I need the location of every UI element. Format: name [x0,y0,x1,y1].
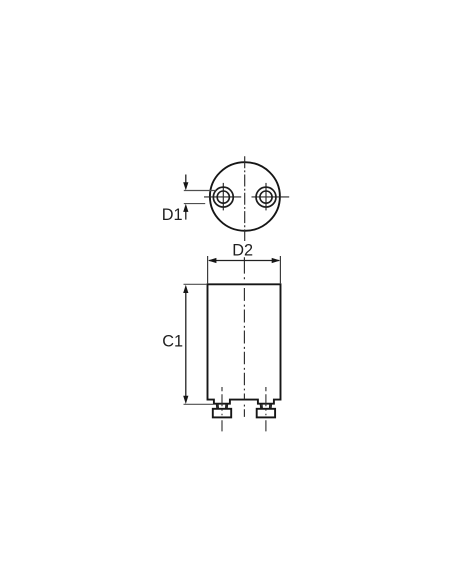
pin P2 crosshair vertical [265,183,267,211]
C1 extension line top [184,283,208,285]
D1 extension line lower [184,203,205,205]
D1 dimension arrow lower [183,204,188,220]
C1 dimension line with arrows [183,285,188,404]
D2 extension line right [279,256,281,284]
pin P3 neck [217,404,228,409]
pin P2 (top view) [260,191,272,203]
D1 dimension arrow upper [183,175,188,191]
C1 extension line bottom [184,403,214,405]
pin P3 centerline [221,387,223,431]
starter can body (side view) [208,284,281,403]
svg-text:C1: C1 [162,332,183,350]
svg-text:D2: D2 [232,241,253,259]
starter can outline (top view) [210,162,280,231]
pin P2 outer collar (top view) [256,187,276,207]
D2 dimension line [208,258,280,263]
centerline (side view vertical axis) [243,257,245,417]
centerline (top view vertical axis) [244,156,246,241]
svg-text:D1: D1 [162,206,183,224]
D1 extension line upper [184,190,216,192]
label D2 [231,241,254,259]
pin P4 neck [260,404,271,409]
pin P2 crosshair horizontal [252,196,290,198]
pin P1 crosshair horizontal [204,196,241,198]
pin P1 (top view) [217,191,229,203]
pin P1 crosshair vertical [222,183,224,211]
D2 extension line left [207,256,209,284]
pin P4 foot [257,409,275,418]
pin P4 centerline [265,387,267,431]
pin P1 outer collar (top view) [213,187,233,207]
pin P3 foot [213,409,231,418]
